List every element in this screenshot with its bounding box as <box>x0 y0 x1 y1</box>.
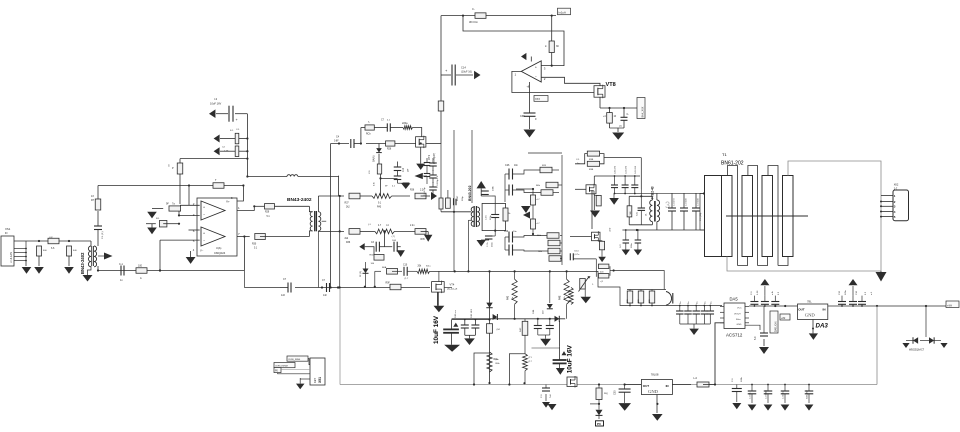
svg-text:C-1 (2-): C-1 (2-) <box>102 231 104 239</box>
svg-text:(4.7a: (4.7a <box>575 254 581 256</box>
svg-text:R29: R29 <box>265 212 270 214</box>
svg-text:230b: 230b <box>493 185 495 191</box>
svg-text:L-0: L-0 <box>693 377 697 380</box>
svg-text:R2F: R2F <box>542 165 547 167</box>
svg-text:C-0 130p 1-0: C-0 130p 1-0 <box>437 175 439 188</box>
svg-text:R3B: R3B <box>589 159 594 161</box>
svg-text:IN: IN <box>5 232 8 235</box>
svg-text:C26: C26 <box>505 164 510 167</box>
svg-text:R4E: R4E <box>560 295 562 300</box>
svg-text:+I/A: +I/A <box>947 303 952 307</box>
svg-text:R35: R35 <box>421 239 426 241</box>
svg-text:XS1: XS1 <box>5 227 11 231</box>
svg-text:C41 220: C41 220 <box>625 165 627 174</box>
svg-text:100: 100 <box>138 265 143 268</box>
svg-text:R26: R26 <box>387 149 392 151</box>
svg-text:(10uF 16): (10uF 16) <box>461 71 472 74</box>
svg-text:V+: V+ <box>226 200 230 204</box>
svg-text:C-0 16Db: C-0 16Db <box>766 389 768 399</box>
svg-text:1HF: 1HF <box>392 240 397 242</box>
svg-text:(4a-4(n-a8: (4a-4(n-a8 <box>447 289 458 291</box>
svg-text:1nF: 1nF <box>323 295 328 297</box>
svg-text:120n: 120n <box>845 289 847 295</box>
svg-text:T4B: T4B <box>630 211 632 216</box>
svg-text:1nF: 1nF <box>281 294 286 297</box>
svg-text:IN: IN <box>823 308 826 312</box>
svg-text:PD-5(n/P): PD-5(n/P) <box>433 153 436 164</box>
svg-text:CUR6_R6N5E: CUR6_R6N5E <box>275 366 289 368</box>
svg-text:C-0a 7a: C-0a 7a <box>783 391 785 399</box>
svg-text:a-A: a-A <box>771 291 774 295</box>
svg-text:9-B: 9-B <box>374 182 376 186</box>
svg-text:BN43-2402: BN43-2402 <box>80 252 85 274</box>
svg-text:DA3: DA3 <box>816 323 829 330</box>
svg-text:900s 26V: 900s 26V <box>807 390 809 399</box>
svg-text:+: + <box>203 231 205 235</box>
svg-text:10uF 16V: 10uF 16V <box>210 102 222 106</box>
svg-text:(1Y: (1Y <box>529 357 533 359</box>
svg-text:C-0 470p: C-0 470p <box>424 187 426 196</box>
svg-text:R247: R247 <box>457 195 459 201</box>
svg-text:ACS712: ACS712 <box>726 333 743 338</box>
svg-text:R37: R37 <box>345 203 350 205</box>
svg-text:1X: 1X <box>91 195 94 198</box>
svg-text:KEY: KEY <box>313 378 317 383</box>
svg-text:VT4: VT4 <box>450 283 455 287</box>
svg-text:−: − <box>203 239 205 243</box>
svg-text:CMQ224: CMQ224 <box>214 251 226 255</box>
svg-text:VT3: VT3 <box>427 154 431 160</box>
svg-text:GND: GND <box>805 313 816 318</box>
svg-text:C55: C55 <box>614 390 617 395</box>
svg-text:C-0 100: C-0 100 <box>686 198 688 206</box>
svg-text:VCC: VCC <box>737 307 742 309</box>
svg-text:OUT: OUT <box>798 308 805 312</box>
svg-text:VIOUT: VIOUT <box>734 313 741 315</box>
svg-text:+82: +82 <box>781 317 786 320</box>
svg-text:GND: GND <box>648 389 659 394</box>
svg-text:C40 16.8: C40 16.8 <box>471 308 473 318</box>
svg-text:WBCEQ6ACT: WBCEQ6ACT <box>909 349 925 352</box>
svg-text:2-: 2- <box>545 45 547 48</box>
svg-text:3K: 3K <box>556 45 559 48</box>
svg-text:C-0 470: C-0 470 <box>674 198 676 206</box>
svg-text:GND: GND <box>737 324 742 326</box>
svg-text:+: + <box>203 205 205 209</box>
svg-text:(-7): (-7) <box>392 236 396 238</box>
svg-text:R4C: R4C <box>520 327 522 332</box>
svg-text:C-: C- <box>627 114 630 116</box>
svg-text:2.2K: 2.2K <box>224 151 229 153</box>
svg-text:U(A): U(A) <box>216 246 221 250</box>
svg-text:78L: 78L <box>807 300 812 304</box>
svg-text:(2): (2) <box>619 126 622 128</box>
svg-text:C-0 4a: C-0 4a <box>750 392 752 399</box>
svg-text:BAK_XXX: BAK_XXX <box>642 106 645 117</box>
svg-text:C42 220: C42 220 <box>635 165 637 174</box>
svg-text:C14: C14 <box>461 66 466 70</box>
svg-text:−: − <box>203 213 205 217</box>
svg-text:C40 220: C40 220 <box>615 165 617 174</box>
svg-text:78L08: 78L08 <box>651 372 659 376</box>
svg-text:C2b: C2b <box>504 231 509 233</box>
svg-text:X51: X51 <box>318 377 322 383</box>
svg-text:3-: 3- <box>368 122 370 124</box>
svg-text:2.2n: 2.2n <box>410 225 415 227</box>
svg-text:R30: R30 <box>252 244 257 246</box>
svg-text:X62: X62 <box>894 183 899 187</box>
svg-text:R42: R42 <box>508 295 510 300</box>
svg-text:BA(N): BA(N) <box>373 155 376 162</box>
svg-text:R36: R36 <box>346 242 351 244</box>
svg-text:+: + <box>535 66 537 70</box>
svg-text:Filter: Filter <box>736 318 741 321</box>
svg-text:BN43-2402: BN43-2402 <box>287 197 312 203</box>
svg-text:1-06: 1-06 <box>757 290 759 295</box>
svg-text:10uF 16V: 10uF 16V <box>433 315 440 344</box>
svg-text:−: − <box>535 75 537 79</box>
svg-text:T1: T1 <box>722 152 727 157</box>
svg-text:R36: R36 <box>410 190 415 192</box>
svg-text:IN: IN <box>666 384 669 388</box>
svg-text:In1uA: In1uA <box>559 11 566 15</box>
svg-text:P0: P0 <box>597 422 601 426</box>
svg-text:160b: 160b <box>741 376 743 382</box>
svg-text:10uF 16V: 10uF 16V <box>567 345 574 374</box>
svg-text:V−: V− <box>200 249 204 253</box>
svg-text:3F (2): 3F (2) <box>360 271 362 277</box>
svg-text:R3B: R3B <box>589 169 594 171</box>
svg-text:R0A: R0A <box>382 266 387 269</box>
svg-text:C-0 (2B): C-0 (2B) <box>700 212 702 221</box>
svg-text:OUT: OUT <box>643 384 650 388</box>
svg-text:CUR6_R6N6: CUR6_R6N6 <box>288 359 301 361</box>
svg-text:0.8F: 0.8F <box>334 141 339 143</box>
svg-text:BN43-202: BN43-202 <box>468 185 472 201</box>
svg-text:(E-: (E- <box>646 213 648 216</box>
svg-text:C4B: C4B <box>533 309 535 314</box>
svg-text:C40 a-a: C40 a-a <box>455 309 457 318</box>
svg-text:DA5: DA5 <box>730 297 739 302</box>
svg-text:LF-6-1AN: LF-6-1AN <box>10 252 13 263</box>
svg-text:C10: C10 <box>403 167 405 172</box>
svg-text:C10: C10 <box>403 265 408 267</box>
svg-text:DAB_XXX: DAB_XXX <box>775 321 778 332</box>
svg-text:220a: 220a <box>402 122 408 125</box>
svg-text:R43: R43 <box>377 207 382 209</box>
svg-text:C-: C- <box>472 7 475 11</box>
svg-text:C35: C35 <box>520 115 525 118</box>
svg-text:C-1: C-1 <box>119 263 124 266</box>
svg-text:3K=Om: 3K=Om <box>469 20 478 24</box>
svg-text:RCb: RCb <box>366 134 371 136</box>
svg-text:C-0 200: C-0 200 <box>698 198 700 206</box>
svg-text:R0F: R0F <box>386 283 391 285</box>
svg-text:XXX: XXX <box>535 98 540 101</box>
svg-text:9F(): 9F() <box>604 393 608 395</box>
svg-text:VT8: VT8 <box>606 82 616 88</box>
